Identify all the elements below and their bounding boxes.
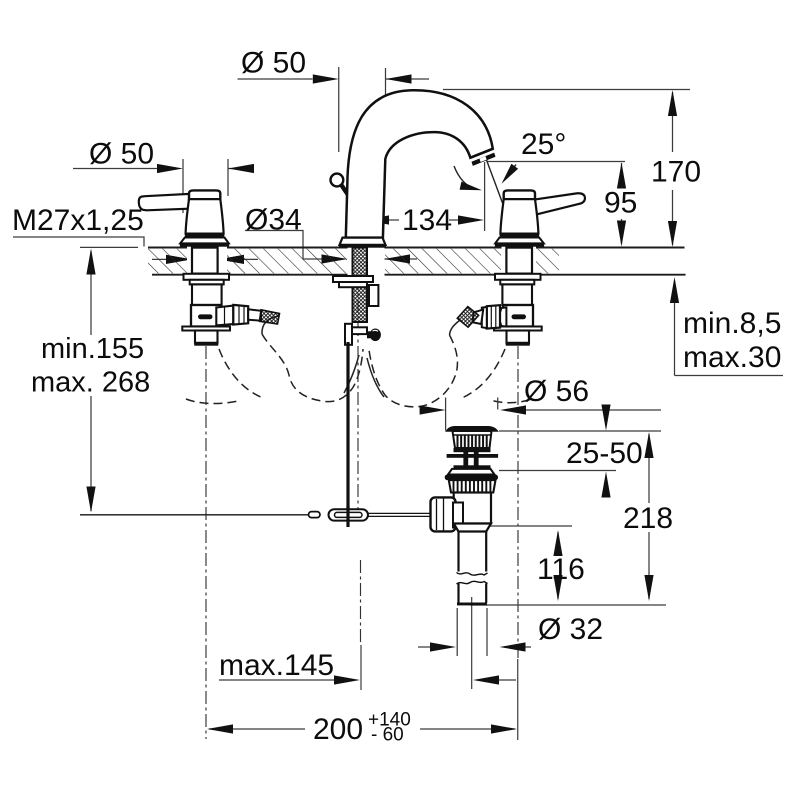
svg-text:max.145: max.145 — [219, 649, 334, 682]
svg-text:200: 200 — [313, 713, 363, 746]
svg-text:M27x1,25: M27x1,25 — [12, 204, 144, 237]
svg-text:Ø 50: Ø 50 — [89, 138, 154, 171]
svg-text:170: 170 — [651, 156, 701, 189]
svg-text:min.8,5: min.8,5 — [683, 307, 781, 340]
svg-text:Ø 32: Ø 32 — [538, 613, 603, 646]
svg-text:Ø 50: Ø 50 — [241, 47, 306, 80]
svg-text:116: 116 — [537, 553, 585, 586]
svg-text:- 60: - 60 — [371, 725, 404, 746]
svg-text:max.30: max.30 — [683, 341, 781, 374]
svg-text:95: 95 — [604, 187, 637, 220]
svg-text:Ø 56: Ø 56 — [524, 375, 589, 408]
svg-text:min.155: min.155 — [41, 333, 144, 365]
svg-text:25-50: 25-50 — [566, 437, 643, 470]
svg-text:25°: 25° — [521, 128, 566, 161]
svg-text:max. 268: max. 268 — [31, 367, 150, 399]
svg-text:Ø34: Ø34 — [245, 204, 302, 237]
svg-text:134: 134 — [402, 204, 452, 237]
svg-text:218: 218 — [623, 502, 673, 535]
